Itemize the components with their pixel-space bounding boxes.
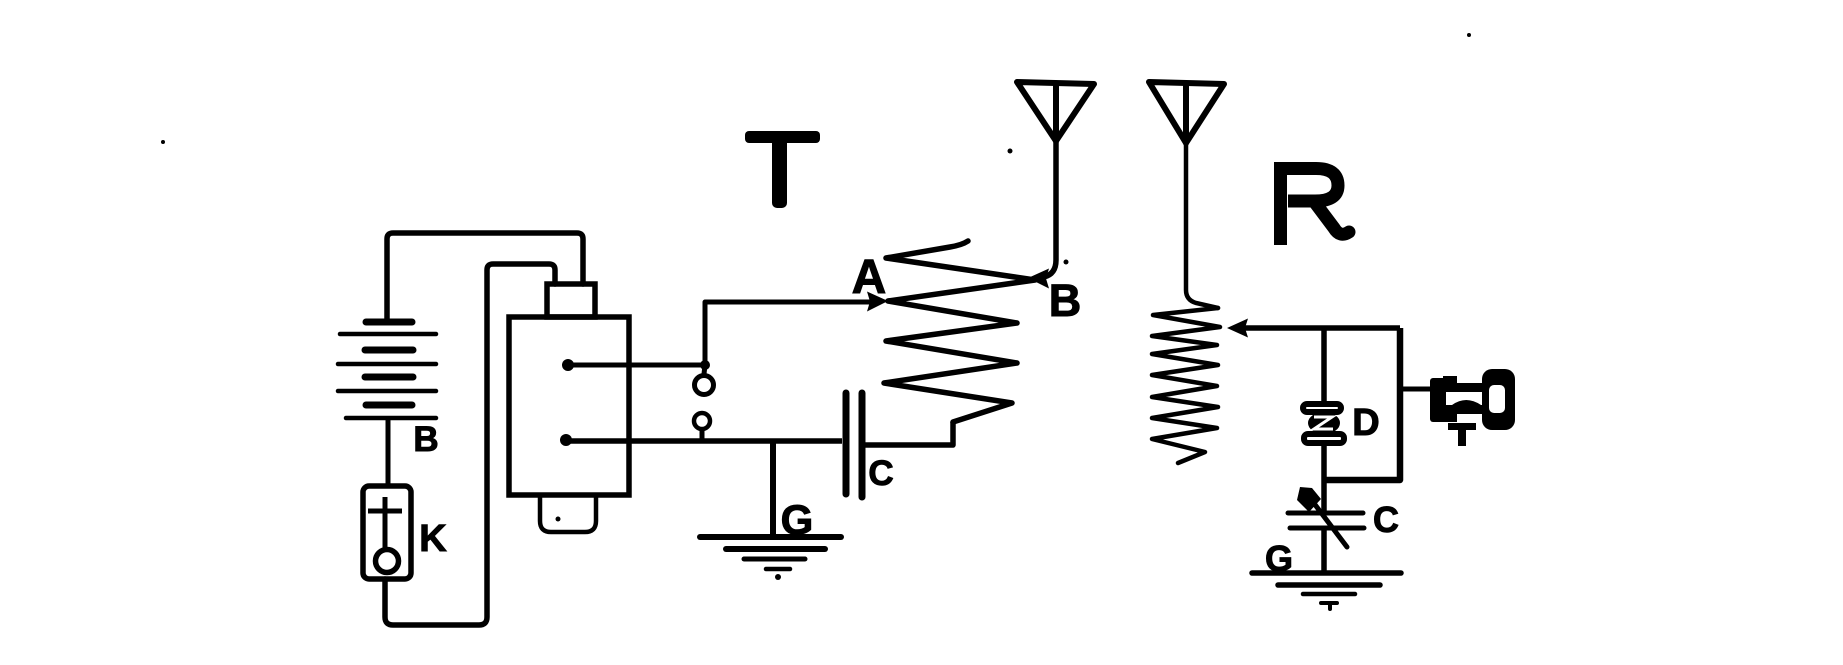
label A — [852, 251, 887, 304]
stray ink speck 1 — [161, 140, 165, 144]
antenna (transmitter) — [1017, 82, 1094, 141]
antenna lead wire to B arrow — [1044, 141, 1056, 277]
label C (transmitter) — [868, 454, 893, 493]
ground G (receiver) — [1252, 573, 1401, 609]
label B (helix tap) — [1049, 275, 1082, 326]
variable capacitor arrowhead — [1297, 487, 1321, 512]
wire junction to ground G — [770, 441, 776, 539]
wire junction down to detector D — [1321, 328, 1327, 403]
detector D (crystal detector) — [1303, 404, 1344, 443]
receiver tuning coil (vertical zigzag) — [1152, 308, 1220, 463]
coil terminal dot lower — [560, 434, 572, 446]
wire battery bottom to key — [386, 418, 391, 488]
wire lower terminal to capacitor C — [566, 438, 842, 444]
svg-text:B: B — [413, 420, 438, 459]
spark gap ball lower — [694, 413, 710, 441]
induction coil top cap — [547, 284, 595, 317]
svg-text:C: C — [868, 454, 893, 493]
arrowhead B — [1028, 269, 1049, 289]
induction coil bottom cap — [540, 493, 596, 532]
arrowhead A — [867, 292, 888, 312]
label C (receiver) — [1373, 499, 1399, 540]
arrowhead coil tap — [1227, 319, 1248, 338]
variable capacitor C (receiver) — [1288, 498, 1364, 547]
label K — [419, 518, 447, 560]
stray ink speck 2 — [1008, 149, 1013, 154]
wire upper terminal to spark gap and to helix arrow A — [568, 302, 871, 365]
label T (transmitter title) — [745, 131, 820, 208]
antenna lead wire (receiver) — [1186, 143, 1218, 308]
label R (receiver title) — [1276, 162, 1349, 245]
label G (receiver ground) — [1265, 538, 1293, 579]
key K — [363, 486, 411, 579]
svg-text:C: C — [1373, 499, 1399, 540]
ground G (transmitter) — [700, 537, 841, 580]
helix (transmitter coil zigzag) — [884, 241, 1035, 422]
wire detector bottom to lower node — [1321, 446, 1327, 513]
label D — [1352, 402, 1379, 444]
spark gap ball upper — [695, 365, 714, 395]
induction coil (box) — [509, 317, 629, 495]
wire key bottom to coil top cap (long loop) — [385, 264, 555, 625]
stray ink speck 3 — [1064, 260, 1069, 265]
stray ink speck 4 — [1467, 33, 1471, 37]
telephone receiver T — [1430, 369, 1515, 430]
svg-text:A: A — [852, 251, 887, 304]
loop right side wire — [1324, 328, 1400, 480]
svg-text:G: G — [1265, 538, 1293, 579]
label T (telephone) — [1448, 423, 1476, 446]
wire capacitor to helix bottom — [865, 422, 953, 445]
wire to telephone T — [1400, 387, 1432, 392]
wire coil tap arrow to detector loop — [1243, 325, 1400, 331]
svg-text:B: B — [1049, 275, 1082, 326]
svg-text:G: G — [781, 496, 814, 543]
label B (battery) — [413, 420, 438, 459]
svg-text:D: D — [1352, 402, 1379, 444]
battery B (cell stack) — [338, 322, 436, 418]
svg-text:K: K — [419, 518, 447, 560]
antenna (receiver) — [1149, 82, 1224, 143]
wire junction dot at spark gap — [700, 360, 710, 370]
wire capacitor to ground (receiver) — [1321, 528, 1327, 575]
wire battery top to coil top cap — [387, 233, 583, 322]
label G (transmitter ground) — [781, 496, 814, 543]
coil terminal dot upper — [562, 359, 574, 371]
capacitor C (transmitter) plates — [846, 393, 862, 497]
